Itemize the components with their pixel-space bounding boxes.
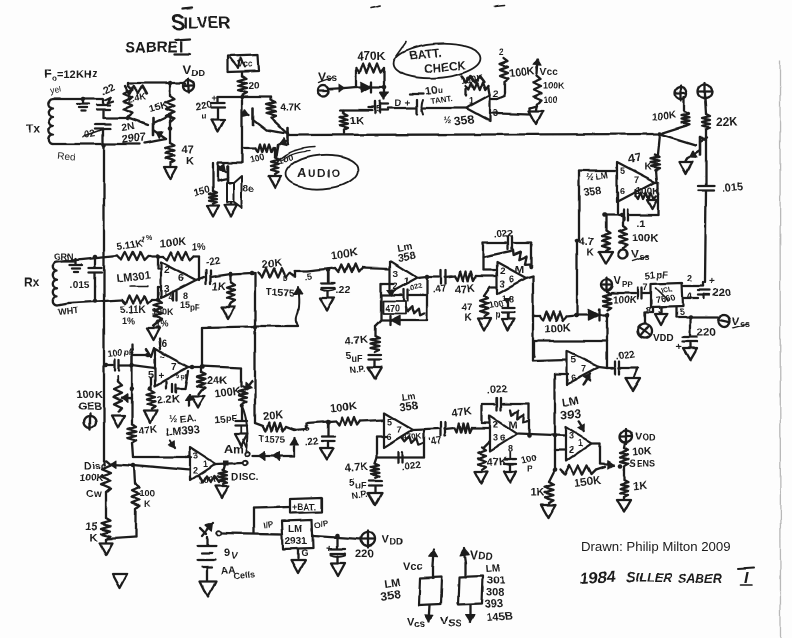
- ground .22 ch1: [320, 298, 335, 311]
- wire wiper disc: [110, 464, 190, 470]
- svg-text:pF: pF: [657, 270, 668, 280]
- svg-text:Red: Red: [57, 151, 76, 164]
- ground batt: [529, 104, 543, 124]
- svg-text:6: 6: [620, 186, 625, 196]
- ground 24K: [192, 390, 205, 408]
- svg-text:+: +: [709, 276, 715, 287]
- resistor fb U5: [483, 250, 530, 264]
- node TX vert: [102, 143, 107, 148]
- svg-text:A: A: [297, 165, 307, 180]
- wire TX top: [53, 98, 103, 100]
- svg-text:u: u: [202, 112, 207, 121]
- svg-text:1: 1: [404, 276, 409, 286]
- node Q1 collector: [168, 126, 173, 131]
- pin6 U3: [178, 273, 184, 284]
- capacitor 220 bottom: [676, 317, 715, 353]
- resistor 100 h spk: [242, 144, 274, 165]
- label T1575 b: [259, 434, 285, 445]
- wire gnd stub: [82, 99, 84, 103]
- legend box 358: [419, 566, 442, 605]
- ground 47K TX: [164, 163, 177, 179]
- wire U8 fb box: [377, 430, 424, 457]
- wire 20K step b: [286, 423, 311, 434]
- wire geb fb loop: [202, 325, 257, 367]
- label IP reg: [263, 519, 275, 530]
- node d1: [574, 313, 579, 318]
- svg-text:K: K: [464, 312, 472, 323]
- capacitor 100p ch2: [504, 444, 537, 474]
- wire U4 fb box: [381, 277, 427, 320]
- resistor 1K sens: [620, 466, 647, 497]
- node 20K: [250, 271, 255, 276]
- resistor 100K U2 fb: [636, 186, 661, 200]
- pin6 U5: [509, 274, 514, 284]
- transistor M1 fet: [368, 101, 388, 114]
- resistor 47K ch2: [445, 405, 472, 432]
- resistor 10K sens: [620, 443, 656, 470]
- svg-text:7: 7: [171, 362, 177, 373]
- svg-text:yel: yel: [49, 84, 62, 96]
- oval AUDIO: [277, 147, 359, 191]
- op-amp U4 LM358a: [390, 261, 427, 293]
- pin2 U9: [493, 420, 498, 430]
- capacitor .022 ch1 M fb: [493, 228, 514, 249]
- svg-text:.1: .1: [637, 219, 646, 230]
- svg-text:100K: 100K: [152, 307, 174, 317]
- resistor 4.7K ch2: [344, 457, 379, 478]
- svg-text:220: 220: [713, 287, 731, 299]
- power plus2: [698, 83, 712, 100]
- ground 15K: [100, 543, 113, 555]
- wire 47K top: [169, 122, 171, 143]
- svg-text:WHT: WHT: [57, 305, 79, 317]
- svg-text:'47: '47: [428, 435, 443, 448]
- resistor fb U9: [510, 410, 528, 422]
- svg-text:6: 6: [161, 339, 167, 350]
- node TX base: [126, 116, 131, 121]
- svg-text:pF: pF: [190, 303, 200, 312]
- resistor 150K: [560, 466, 605, 490]
- wire cap to base: [103, 117, 128, 119]
- op-amp U1 half358: [466, 95, 490, 121]
- wire 47K to out: [656, 170, 657, 182]
- capacitor geb fb: [166, 371, 188, 392]
- label half 358: [443, 112, 476, 129]
- op-amp U9 393M b: [490, 416, 517, 451]
- resistor 100K vss: [619, 215, 658, 248]
- svg-text:1: 1: [578, 438, 583, 448]
- resistor 100K pot geb: [214, 368, 252, 404]
- svg-text:358: 358: [397, 251, 417, 265]
- wire U3 out: [196, 277, 204, 280]
- label AUDIO: [297, 165, 342, 180]
- resistor 47K gnd ch1: [461, 287, 497, 323]
- svg-text:C: C: [86, 489, 93, 500]
- svg-text:D: D: [84, 461, 91, 472]
- node disc pt: [243, 461, 247, 465]
- svg-text:ENS: ENS: [637, 459, 656, 469]
- pin2 U3: [164, 265, 170, 276]
- svg-text:u: u: [438, 86, 443, 95]
- svg-text:100K: 100K: [543, 81, 565, 91]
- svg-text:SABRE: SABRE: [125, 39, 178, 56]
- svg-text:G: G: [301, 548, 308, 558]
- oval BATT CHECK: [392, 41, 482, 81]
- wire 22K down: [700, 130, 706, 185]
- pin6 U10: [159, 339, 167, 350]
- coil TX: [49, 99, 53, 144]
- svg-text:358: 358: [399, 400, 419, 414]
- svg-text:8e: 8e: [243, 184, 255, 195]
- resistor 100K ch1: [331, 246, 362, 272]
- resistor 150: [192, 163, 217, 204]
- svg-text:1: 1: [469, 96, 474, 106]
- svg-text:S: S: [629, 459, 636, 470]
- wire q3 join: [288, 132, 289, 135]
- svg-text:5: 5: [620, 166, 625, 176]
- resistor 470 ch1: [383, 301, 424, 315]
- svg-text:470: 470: [385, 303, 400, 313]
- wire audio node down: [658, 134, 660, 155]
- op-amp U11 disc: [190, 447, 216, 481]
- svg-text:2: 2: [493, 420, 498, 430]
- capacitor 100pF geb: [106, 347, 134, 371]
- resistor 47K gnd ch2: [478, 441, 507, 470]
- svg-text:100K: 100K: [80, 473, 105, 484]
- svg-text:K: K: [76, 69, 84, 81]
- svg-text:2: 2: [493, 89, 498, 99]
- wire audio out: [289, 134, 660, 135]
- node pot geb: [240, 404, 245, 409]
- pinminus U10: [160, 352, 165, 362]
- ground 100 spk: [269, 176, 282, 188]
- node fb2: [602, 213, 607, 218]
- ground 150: [207, 206, 219, 217]
- svg-text:100: 100: [543, 95, 558, 105]
- transistor Q5: [660, 134, 707, 158]
- label half LM 358: [583, 170, 609, 199]
- box +BAT: [290, 498, 322, 513]
- label pins U5: [502, 294, 514, 304]
- wire x255 vert: [252, 273, 255, 423]
- stray mark top: [371, 6, 380, 8]
- svg-text:K: K: [144, 499, 151, 509]
- resistor 20K ch2: [255, 409, 286, 431]
- svg-text:cs: cs: [414, 619, 426, 630]
- svg-text:.015: .015: [70, 280, 90, 291]
- pin1 U4: [404, 276, 409, 286]
- label Am: [224, 440, 246, 456]
- ground pot GEB: [112, 416, 125, 428]
- wire U8 out: [413, 429, 439, 430]
- svg-text:3: 3: [493, 433, 498, 443]
- svg-text:V: V: [183, 62, 192, 77]
- ground hatch RX: [70, 259, 82, 272]
- wire sw to reg: [222, 533, 282, 534]
- box Vcc: [228, 55, 259, 72]
- svg-text:100: 100: [140, 488, 155, 498]
- wire U2 out: [655, 181, 658, 183]
- svg-text:1K: 1K: [632, 479, 648, 493]
- svg-text:100K: 100K: [613, 295, 638, 306]
- svg-text:LM: LM: [288, 524, 302, 535]
- wire ch2 to 100K: [307, 421, 336, 429]
- capacitor .022 ch2 M fb: [487, 384, 508, 410]
- wire res to node: [566, 315, 576, 316]
- wire U7 to pot: [600, 461, 614, 469]
- pin5 U8: [387, 417, 392, 427]
- node TX top: [81, 97, 86, 102]
- node sens: [618, 464, 623, 469]
- wire reg out: [313, 536, 361, 539]
- legend Vss2 arrow: [441, 605, 475, 630]
- wire pin5 left: [579, 170, 617, 172]
- pin7 U2: [634, 175, 639, 185]
- svg-text:3: 3: [193, 451, 198, 461]
- wire node to 20K: [231, 273, 252, 274]
- wire geb to pot: [201, 366, 241, 368]
- ground .022 U6: [626, 368, 641, 391]
- svg-text:220: 220: [355, 548, 373, 560]
- svg-text:GEB: GEB: [78, 401, 102, 413]
- svg-text:393: 393: [560, 406, 581, 422]
- svg-text:V: V: [382, 534, 390, 546]
- legend Vss arrow: [407, 605, 434, 630]
- pin5 U10: [148, 370, 154, 381]
- svg-text:DD: DD: [192, 68, 205, 78]
- svg-text:4.7K: 4.7K: [344, 334, 368, 348]
- node RX top: [93, 255, 98, 260]
- ground speaker: [225, 202, 238, 217]
- resistor 100K right batt: [533, 76, 565, 105]
- wire x555 b: [553, 450, 558, 472]
- label LM393 right: [560, 395, 581, 422]
- title SILVER: [171, 8, 230, 35]
- label AA cells: [221, 566, 256, 582]
- arrow down U7: [578, 421, 585, 431]
- svg-text:100: 100: [107, 347, 123, 359]
- label yel: [49, 84, 62, 96]
- ground 5uF ch2: [368, 493, 382, 505]
- label 2N2907: [121, 121, 147, 146]
- pin5 U6: [571, 355, 576, 365]
- svg-text:=12: =12: [57, 69, 76, 81]
- svg-text:3: 3: [500, 279, 505, 289]
- svg-text:M: M: [515, 264, 524, 276]
- battery 9V: [198, 537, 239, 567]
- wire U9 out: [517, 434, 566, 436]
- svg-text:p: p: [495, 310, 501, 320]
- svg-text:20K: 20K: [262, 409, 283, 423]
- node geb in: [104, 363, 109, 368]
- resistor 100K vdd: [603, 292, 638, 310]
- svg-text:.47: .47: [432, 283, 448, 296]
- wire to +BAT: [254, 507, 290, 533]
- svg-text:100K: 100K: [544, 322, 571, 336]
- pin2 7660: [683, 273, 703, 286]
- wire y341: [534, 315, 607, 341]
- power VDD 7660: [602, 275, 634, 292]
- resistor 20K ch1: [258, 257, 290, 283]
- label LM358 a: [397, 241, 417, 264]
- capacitor .022 ch2 fb: [398, 452, 422, 473]
- capacitor .47 ch1: [432, 271, 448, 296]
- svg-text:.22: .22: [336, 285, 350, 296]
- svg-text:7: 7: [643, 282, 648, 292]
- resistor 100 v spk: [271, 148, 294, 174]
- wire TX vertical long: [103, 145, 105, 465]
- label 5pf U10: [175, 372, 188, 380]
- svg-text:½: ½: [586, 172, 594, 182]
- svg-text:3: 3: [393, 269, 398, 279]
- diode D1: [356, 82, 384, 92]
- op-amp U8 LM358b: [384, 413, 413, 448]
- ground 1K mid: [541, 505, 556, 518]
- text Drawn: [581, 539, 731, 554]
- wire U10 out: [188, 365, 205, 370]
- power plus1: [675, 86, 687, 101]
- svg-text:PP: PP: [622, 280, 633, 289]
- label half EA LM393: [165, 414, 200, 439]
- svg-text:358: 358: [453, 112, 475, 129]
- resistor 47K geb: [128, 424, 159, 443]
- wire 20K step: [290, 271, 313, 282]
- ground 47K ch1: [478, 319, 491, 331]
- svg-text:8: 8: [646, 305, 651, 315]
- wire selector: [252, 452, 294, 461]
- resistor 100K 1pct b: [152, 300, 174, 329]
- svg-text:SABER: SABER: [678, 572, 722, 586]
- svg-text:1%: 1%: [192, 242, 205, 252]
- pin3 U5: [500, 279, 505, 289]
- resistor 2.2K geb: [147, 378, 180, 409]
- wire U7 out: [592, 443, 600, 464]
- label Tx: [26, 122, 40, 136]
- pin3 U9: [493, 433, 498, 443]
- svg-text:5.11K: 5.11K: [120, 305, 147, 316]
- svg-text:OD: OD: [642, 432, 656, 442]
- node reg cap: [335, 534, 340, 539]
- svg-text:301: 301: [487, 575, 505, 587]
- svg-text:+: +: [405, 98, 411, 109]
- svg-text:F: F: [44, 66, 52, 81]
- node U4 out: [425, 275, 430, 280]
- svg-text:w: w: [93, 489, 102, 500]
- wire rx in3: [152, 287, 161, 300]
- wire U4 out right: [427, 276, 439, 278]
- power VDD TX: [183, 62, 205, 93]
- node 15K top: [168, 81, 173, 86]
- pin6 U8: [387, 432, 392, 442]
- svg-text:2: 2: [500, 266, 505, 276]
- svg-text:22K: 22K: [716, 115, 738, 129]
- node 220b: [688, 315, 693, 320]
- wire U5 fb box: [483, 243, 531, 270]
- power Vcc batt: [534, 59, 559, 78]
- pin8 7660: [645, 305, 653, 324]
- wire spk bottom: [218, 163, 242, 170]
- svg-text:358: 358: [379, 587, 401, 604]
- label 10u TANT: [425, 84, 453, 106]
- pin5 7660: [676, 307, 718, 317]
- svg-text:Drawn: Philip Milton 2009: Drawn: Philip Milton 2009: [581, 539, 731, 554]
- op-amp U7 393dn: [566, 427, 592, 461]
- transistor TI575 b: [290, 438, 299, 456]
- diode D2: [576, 310, 607, 321]
- svg-text:2: 2: [193, 466, 198, 476]
- ground battery: [200, 581, 216, 597]
- svg-text:4.7K: 4.7K: [344, 461, 368, 475]
- svg-text:5: 5: [679, 307, 684, 317]
- svg-text:470K: 470K: [357, 49, 386, 63]
- resistor 47K tr: [626, 150, 659, 173]
- pin2 U4: [393, 281, 398, 291]
- pin3 7660: [655, 306, 667, 325]
- pin6 U9: [500, 433, 505, 443]
- svg-text:100K: 100K: [632, 233, 658, 245]
- wire TX bottom: [53, 143, 140, 145]
- svg-text:100K: 100K: [651, 110, 677, 123]
- ground 4.7K tr: [599, 252, 613, 264]
- capacitor 5uF ch1: [345, 351, 382, 375]
- resistor 24K: [197, 366, 228, 390]
- capacitor .22 ch2: [304, 422, 335, 449]
- pin5 U2: [620, 166, 625, 176]
- pin3 U11: [193, 451, 198, 461]
- ground 100p ch2: [504, 471, 516, 482]
- ground 1K sens: [617, 497, 631, 512]
- node RX bot: [93, 299, 98, 304]
- resistor 4.7K tr: [579, 215, 610, 258]
- wire U9 fb box: [482, 404, 529, 436]
- ground 100p ch1: [502, 319, 514, 330]
- svg-text:2907: 2907: [121, 132, 146, 146]
- resistor 15K: [148, 83, 175, 122]
- svg-text:isc: isc: [92, 461, 106, 472]
- resistor 20: [238, 72, 260, 95]
- svg-text:3: 3: [569, 431, 574, 441]
- capacitor 51pF: [612, 270, 668, 299]
- node 470K: [382, 85, 387, 90]
- legend VDD arrow: [461, 548, 494, 563]
- node rx in3: [156, 298, 161, 303]
- op-amp U3 LM301: [161, 262, 196, 298]
- ground .22 ch2: [320, 448, 334, 460]
- pin7 U10: [171, 362, 177, 373]
- svg-text:.22: .22: [304, 436, 320, 449]
- transistor TI575 a: [294, 287, 303, 326]
- svg-text:pF: pF: [226, 413, 237, 423]
- node x555 a: [553, 434, 558, 439]
- label T1575 a: [266, 287, 295, 299]
- resistor 4.7K spk: [267, 97, 302, 118]
- svg-text:SS: SS: [448, 618, 463, 630]
- capacitor 100p ch1: [488, 299, 514, 320]
- svg-text:20K: 20K: [261, 257, 282, 271]
- power VDD circ 7660: [638, 324, 674, 344]
- svg-text:K: K: [587, 247, 595, 258]
- ground 220u spk: [212, 120, 225, 132]
- svg-text:UDIO: UDIO: [308, 168, 342, 180]
- resistor 470K ch2: [402, 431, 423, 445]
- speaker 8ohm: [227, 176, 255, 208]
- svg-text:D: D: [283, 276, 288, 283]
- svg-text:+BAT.: +BAT.: [292, 502, 317, 512]
- node rx fb: [156, 254, 161, 259]
- svg-text:K: K: [186, 155, 194, 167]
- svg-text:1K: 1K: [350, 115, 364, 127]
- svg-text:S: S: [626, 569, 636, 586]
